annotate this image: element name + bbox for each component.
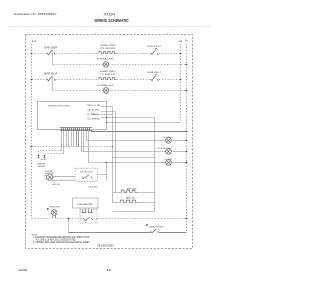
switch surface LF <box>47 76 56 81</box>
svg-text:SURF SW LF: SURF SW LF <box>44 74 58 76</box>
EOC electronic oven control box <box>38 102 107 130</box>
resistor bake element <box>121 200 139 202</box>
wire row2 mid <box>56 79 100 81</box>
wire EOC pin A <box>101 106 113 108</box>
wire broil left <box>113 192 122 194</box>
oven sensor connector <box>37 156 46 160</box>
svg-text:BAKE UNIT: BAKE UNIT <box>126 197 136 200</box>
wire door box out <box>98 173 107 175</box>
svg-text:BK L1 IN: BK L1 IN <box>88 105 102 107</box>
svg-text:OVEN LIGHT: OVEN LIGHT <box>49 206 61 208</box>
wire broil right <box>138 192 155 194</box>
svg-text:E1305: E1305 <box>19 268 28 272</box>
wire pin v2 <box>63 131 65 154</box>
switch surface RF <box>47 50 56 55</box>
wire row2b to N <box>109 90 187 92</box>
svg-text:RF SIGNAL LIGHT: RF SIGNAL LIGHT <box>97 58 114 61</box>
wire pin v8 dark <box>78 131 80 147</box>
wire lamp drop row1 <box>52 50 54 65</box>
wire row1b left <box>53 64 104 66</box>
wire pin v3 <box>66 131 68 147</box>
wire parallel drop <box>68 219 70 233</box>
node junction lamp2 N <box>186 151 188 153</box>
resistor broil element <box>121 190 137 192</box>
svg-text:RT. FRONT: RT. FRONT <box>101 48 117 50</box>
switch surface LT pole2 <box>151 75 159 82</box>
wire bake left <box>113 202 121 204</box>
wire pin v6 <box>73 131 75 147</box>
svg-text:ON LIGHT: ON LIGHT <box>164 159 173 161</box>
switch door lock <box>82 175 93 179</box>
node junction row1b N <box>186 64 188 66</box>
wire lamp2 feed <box>82 151 166 153</box>
wire bake right <box>138 202 154 204</box>
wire H146 to L1 <box>32 146 113 148</box>
wire pin v1 <box>61 131 63 151</box>
wire lamp2 to N <box>171 151 186 153</box>
node junction L1 row1 <box>31 53 33 55</box>
svg-text:L2: L2 <box>179 39 183 43</box>
wire lamp1 feed <box>87 140 166 142</box>
wire EOC neutral solid <box>92 131 187 132</box>
door lock switch box <box>75 168 98 181</box>
wire sensor lead 1 <box>39 151 62 156</box>
node junction light parallel <box>68 218 70 220</box>
lamp indicator 1 <box>166 138 172 144</box>
label oven light star <box>47 208 49 210</box>
wire motor out1 <box>53 175 75 177</box>
node junction L1 H146 <box>31 146 33 148</box>
wire row2b left <box>53 90 104 92</box>
console dashed border <box>26 35 193 249</box>
node junction lamp3 feed V106 <box>106 162 108 164</box>
lamp indicator 3 <box>166 160 172 166</box>
wire row2 left <box>32 79 48 81</box>
wire motor out2 <box>52 179 75 181</box>
svg-text:W N IN: W N IN <box>88 109 100 111</box>
switch oven light <box>150 229 159 233</box>
svg-text:WIRING SCHEMATIC: WIRING SCHEMATIC <box>94 18 128 23</box>
switch door light <box>83 217 93 221</box>
wire bottom row from L1 <box>32 218 52 220</box>
wire V106 to door box <box>105 163 107 181</box>
node junction H146 V112 <box>112 146 114 148</box>
motor door lock <box>45 174 53 180</box>
connector ticks in box <box>81 210 93 213</box>
svg-text:N: N <box>185 39 187 43</box>
wire pin v10 <box>83 131 85 152</box>
oven lamp box <box>73 198 99 208</box>
svg-text:SURF SW LT: SURF SW LT <box>147 72 162 74</box>
svg-text:OVEN LAMP ASSY: OVEN LAMP ASSY <box>77 203 94 206</box>
lamp LF signal light <box>103 88 109 94</box>
wire pin v12 <box>89 131 166 163</box>
svg-text:SURF SW RF: SURF SW RF <box>44 47 58 49</box>
node junction bottom N <box>186 218 188 220</box>
node junction row2b N <box>186 90 188 92</box>
svg-text:ELECTRONIC OVEN CONTROL: ELECTRONIC OVEN CONTROL <box>48 106 71 108</box>
wire row1 mid <box>56 53 100 55</box>
wire through door light box <box>80 218 97 220</box>
wire switch row left <box>69 232 151 234</box>
svg-text:L1: L1 <box>32 39 37 43</box>
door light switch box <box>80 209 97 223</box>
wire bottom row right <box>97 218 187 220</box>
switch surface RT pole2 <box>151 49 159 56</box>
wire pin v5 <box>71 131 73 147</box>
svg-text:LF SIGNAL LIGHT: LF SIGNAL LIGHT <box>97 84 114 87</box>
svg-text:LT. FRONT: LT. FRONT <box>101 74 117 76</box>
lamp RF signal light <box>103 62 109 68</box>
svg-text:SURF SW RT: SURF SW RT <box>147 46 162 48</box>
svg-text:OVEN LIGHT SW: OVEN LIGHT SW <box>149 227 163 229</box>
svg-text:MDL SW: MDL SW <box>52 184 59 186</box>
svg-text:Publication No: 5995439817: Publication No: 5995439817 <box>14 12 57 16</box>
wire EOC pin B <box>101 111 116 113</box>
wire pin v11 <box>86 131 88 141</box>
wire row1 left <box>32 53 48 55</box>
node junction row1 L2 <box>180 53 182 55</box>
wire lamp1 to N <box>171 140 186 142</box>
node junction EOC pin D <box>106 117 107 118</box>
wire lamp drop row2 <box>52 76 54 91</box>
label oven light sw star <box>146 224 148 226</box>
wire row1 to L2 <box>159 53 181 55</box>
wire EOC pin D <box>101 117 155 119</box>
connector strip P1 on EOC <box>60 128 93 131</box>
wire V112 vertical <box>112 107 114 203</box>
wire L2 rail <box>180 44 182 123</box>
wire L1 rail <box>31 44 33 219</box>
wire EOC to L2 branch <box>107 122 181 124</box>
svg-text:316253200: 316253200 <box>97 244 114 248</box>
wire pin v9 <box>81 131 83 152</box>
wire V154 vertical <box>154 118 156 212</box>
wire row2 to L2 <box>159 79 181 81</box>
node junction EOC pin E <box>106 122 107 123</box>
wire bottom row mid <box>57 218 80 220</box>
svg-text:R BAKE: R BAKE <box>88 113 101 116</box>
svg-text:DOOR LOCK: DOOR LOCK <box>80 171 94 173</box>
wire sensor lead 2 <box>45 154 64 156</box>
wire N rail <box>186 44 188 233</box>
svg-text:LOCK SW: LOCK SW <box>88 187 97 189</box>
resistor surface unit RF <box>99 52 116 54</box>
lamp oven light bulb <box>51 210 57 219</box>
node junction lamp1 N <box>186 140 188 142</box>
resistor surface unit LF <box>99 78 116 80</box>
wire pin v7 dark <box>76 131 78 147</box>
node junction lamp3 N <box>186 162 188 164</box>
wire pin v4 <box>68 131 70 147</box>
wire row1b to N <box>109 64 187 66</box>
wire H158 <box>113 157 155 159</box>
wire lamp3 to N <box>171 162 186 164</box>
svg-text:SENSOR: SENSOR <box>38 166 45 168</box>
svg-text:NOTES:: NOTES: <box>32 234 38 236</box>
dotted rule under header <box>8 26 211 28</box>
svg-text:FEF352FS: FEF352FS <box>104 13 115 17</box>
wire lamp box stubs <box>86 208 89 209</box>
wire row2 right <box>117 79 151 81</box>
wire switch row right <box>160 232 187 234</box>
wire V116 vertical <box>115 112 117 193</box>
wire row1 right <box>117 53 151 55</box>
wire EOC pin C <box>101 114 113 116</box>
wire oven box bottom <box>113 211 155 213</box>
svg-text:2. CONNECT PER LOCAL AND NATI: 2. CONNECT PER LOCAL AND NATIONAL ELECTR… <box>33 241 90 244</box>
node junction EOC neutral N <box>186 131 188 133</box>
lamp indicator 2 <box>166 149 172 155</box>
node junction row2 L2 <box>180 79 182 81</box>
svg-text:12: 12 <box>106 268 111 272</box>
svg-text:GY BROIL: GY BROIL <box>88 119 101 121</box>
node junction L1 row2 <box>31 79 33 81</box>
